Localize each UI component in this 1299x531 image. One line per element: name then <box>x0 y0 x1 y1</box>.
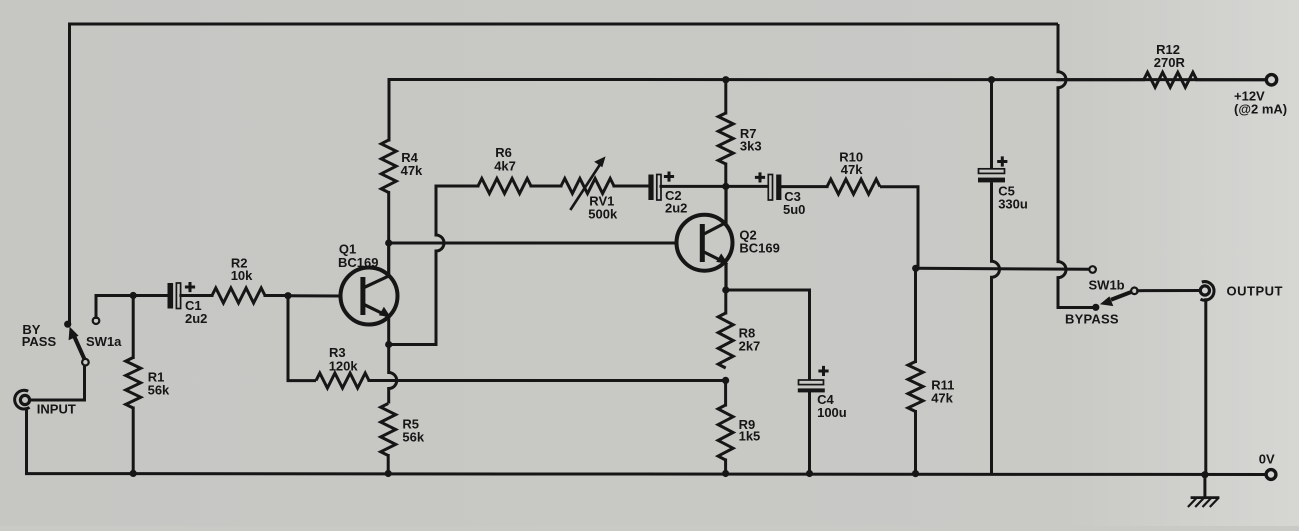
capacitor C5 solid plate <box>978 178 1005 183</box>
node: R11 ground junction <box>912 470 919 477</box>
capacitor C2 solid plate <box>648 175 653 201</box>
resistor R7 <box>718 113 733 164</box>
svg-text:56k: 56k <box>148 383 170 398</box>
svg-text:47k: 47k <box>841 162 863 177</box>
resistor R2 <box>212 288 265 303</box>
C1 plus sign <box>185 282 195 292</box>
wire: C4 to ground bus <box>808 392 811 473</box>
svg-text:OUTPUT: OUTPUT <box>1227 283 1283 298</box>
node: R5 ground junction <box>385 470 392 477</box>
wire: top bypass rail <box>70 24 1059 324</box>
resistor R1 <box>126 358 141 409</box>
svg-text:47k: 47k <box>931 391 953 406</box>
svg-text:4k7: 4k7 <box>494 158 516 173</box>
switch SW1a bypass contact (node) <box>64 321 71 328</box>
resistor R9 top wire <box>724 380 727 405</box>
capacitor C4 solid plate <box>798 388 825 392</box>
terminal: 0V (open circle) <box>1266 470 1276 480</box>
wire: R4 to Q1 collector <box>387 193 390 244</box>
Q2 collector stroke <box>702 186 726 235</box>
capacitor C1 solid plate <box>168 283 174 309</box>
svg-text:270R: 270R <box>1154 55 1186 70</box>
svg-text:47k: 47k <box>401 163 423 178</box>
resistor R12 left wire <box>1058 78 1144 81</box>
Q1 collector stroke <box>363 243 389 288</box>
wire: bypass vertical right with hops, down to SW1b <box>1058 24 1096 308</box>
svg-text:500k: 500k <box>588 206 618 221</box>
svg-text:SW1a: SW1a <box>86 334 122 349</box>
capacitor C3 solid plate <box>776 175 781 201</box>
wire: R11 junction to SW1b contact (hops over C5 and bypass lines) <box>916 268 1090 269</box>
wire: Q1 collector to Q2 base <box>389 242 677 245</box>
capacitor C5 top wire from +12V rail <box>990 80 993 169</box>
wire: Q1 emitter link to R6 (hop over collector wire) <box>389 186 444 345</box>
Q2 base bar <box>700 224 705 262</box>
node: Q1 base junction <box>284 292 291 299</box>
svg-text:PASS: PASS <box>22 334 57 349</box>
node: C4 ground junction <box>806 470 813 477</box>
wire: RV1 to C2 <box>614 185 649 188</box>
wire: R11 to ground bus <box>914 412 917 474</box>
wire: base node to Q1 <box>288 294 341 297</box>
wire: Q2 emitter to C4 <box>726 290 810 380</box>
node: R8/R9 feedback junction <box>722 377 729 384</box>
wire: SW1b common to OUTPUT jack <box>1138 289 1200 292</box>
contact: SW1b amp-side (open circle) <box>1089 266 1096 273</box>
svg-text:120k: 120k <box>329 359 359 374</box>
wire: R9 to ground bus <box>724 460 727 474</box>
wire: R10 to R11 top corner <box>880 187 918 268</box>
variable resistor RV1 <box>561 179 614 194</box>
wire: Q1 emitter down to R5 (hop over R3 wire) <box>389 317 397 404</box>
node: R10/R11 junction <box>912 265 919 272</box>
resistor R4 <box>381 140 396 193</box>
capacitor C4 hollow plate <box>799 380 824 385</box>
C2 plus sign <box>664 172 674 182</box>
svg-text:3k3: 3k3 <box>740 138 762 153</box>
Q2 emitter stroke with arrow <box>702 251 726 290</box>
capacitor C1 hollow plate <box>176 283 180 309</box>
resistor R4 body wire top <box>388 80 391 141</box>
capacitor C3 hollow plate <box>768 175 772 201</box>
C5 plus sign <box>997 156 1007 166</box>
resistor R12 <box>1144 72 1197 87</box>
node: R7 top on +12V rail <box>722 76 729 83</box>
wire: C5 to ground bus (hop over SW1b wire) <box>992 182 1000 474</box>
resistor R11 top wire <box>914 268 917 361</box>
resistor R6 <box>478 179 531 194</box>
switch SW1b common contact <box>1131 288 1138 295</box>
Q1 base bar <box>360 277 365 315</box>
svg-text:56k: 56k <box>402 430 424 445</box>
wire: SW1a throw to C1 wire <box>95 296 98 318</box>
svg-text:2k7: 2k7 <box>739 338 761 353</box>
wire: R3 to second-stage emitter node (passes under hop) <box>369 379 726 382</box>
wire: INPUT to SW1a common <box>30 366 85 400</box>
capacitor C2 hollow plate <box>657 175 661 201</box>
node: R1 top junction <box>130 292 137 299</box>
wire: C3 to R10 <box>781 185 827 188</box>
resistor R8 top wire <box>724 290 727 313</box>
resistor R9 <box>718 405 733 460</box>
C3 plus sign <box>755 172 765 182</box>
switch SW1b bypass contact (node) <box>1092 304 1099 311</box>
svg-text:(@2 mA): (@2 mA) <box>1234 102 1287 117</box>
wire: R1 to ground bus <box>132 408 135 473</box>
connector: INPUT jack shield arc <box>15 390 30 409</box>
node: R9 ground junction <box>722 470 729 477</box>
svg-text:2u2: 2u2 <box>185 311 207 326</box>
switch SW1b lever <box>1111 292 1132 300</box>
transistor Q2 circle <box>677 215 733 271</box>
wire: +12V supply rail <box>389 78 1267 81</box>
wire: R6 to RV1 <box>531 185 561 188</box>
node: C2/R7/C3/Q2-collector junction <box>722 183 729 190</box>
resistor R1 top wire <box>132 296 135 358</box>
Q1 emitter stroke with arrow <box>363 304 389 317</box>
node: R1 ground junction <box>130 470 137 477</box>
svg-text:1k5: 1k5 <box>739 429 761 444</box>
svg-text:BYPASS: BYPASS <box>1065 312 1119 327</box>
svg-text:5u0: 5u0 <box>783 202 805 217</box>
resistor R5 <box>381 404 396 456</box>
wire: C2 to junction <box>661 185 726 188</box>
svg-text:BC169: BC169 <box>739 241 779 256</box>
switch SW1a common contact <box>82 359 89 366</box>
resistor R3 <box>316 373 369 388</box>
resistor R11 <box>908 362 923 412</box>
svg-text:330u: 330u <box>998 197 1028 212</box>
wire: R5 to ground bus <box>387 456 390 474</box>
node: Q1 collector junction <box>385 239 392 246</box>
connector: OUTPUT jack inner <box>1200 286 1209 295</box>
node: output ground junction <box>1201 471 1208 478</box>
node: C5 top on +12V rail <box>988 76 995 83</box>
svg-text:BC169: BC169 <box>338 255 378 270</box>
wire: junction to C3 <box>726 185 768 188</box>
resistor R8 <box>718 313 733 368</box>
switch SW1a throw to C1 <box>93 317 100 324</box>
node: Q1 emitter junction <box>385 341 392 348</box>
svg-text:0V: 0V <box>1259 452 1275 467</box>
ground bus wire <box>27 409 1267 475</box>
connector: OUTPUT jack shield arc <box>1201 282 1215 301</box>
svg-text:SW1b: SW1b <box>1089 278 1125 293</box>
svg-text:2u2: 2u2 <box>665 201 687 216</box>
RV1 wiper arrow <box>570 165 600 211</box>
C4 plus sign <box>818 366 828 376</box>
svg-text:100u: 100u <box>817 405 847 420</box>
switch SW1a lever <box>75 337 85 360</box>
svg-text:10k: 10k <box>231 268 253 283</box>
wire: Q1 base node row (C1/R2) <box>96 294 168 297</box>
wire: signal row R6/RV1/C2/C3/R10 left stub <box>436 185 478 188</box>
node: Q2 emitter junction <box>722 286 729 293</box>
terminal: +12V (open circle) <box>1266 75 1276 85</box>
wire: R7 to junction <box>724 164 727 186</box>
wire: base node down to R3 <box>288 296 316 381</box>
ground symbol <box>1203 475 1206 498</box>
svg-text:INPUT: INPUT <box>37 402 76 417</box>
wire: R12 to +12V terminal <box>1197 78 1267 81</box>
transistor Q1 circle <box>341 268 398 325</box>
capacitor C5 hollow plate <box>979 169 1005 174</box>
resistor R10 <box>827 179 880 194</box>
wire: C1 to R2 <box>181 294 212 297</box>
connector: INPUT jack inner <box>20 395 29 404</box>
wire: R2 to base node <box>265 294 288 297</box>
resistor R7 wire from +12V rail <box>724 80 727 113</box>
wire: OUTPUT shield to ground bus <box>1204 300 1207 475</box>
